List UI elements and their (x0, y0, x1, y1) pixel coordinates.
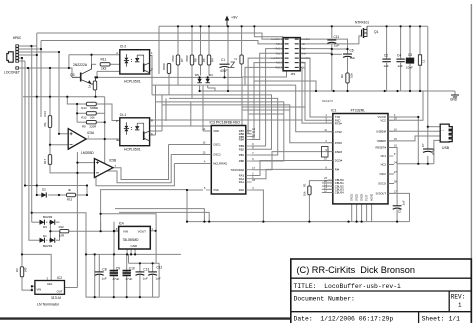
svg-text:NC1: NC1 (381, 154, 387, 158)
wire (168, 74, 170, 95)
svg-text:R9: R9 (82, 125, 86, 129)
svg-text:OSCI: OSCI (379, 172, 386, 176)
wire pin1 (19, 45, 37, 47)
svg-text:LocoNet 1: LocoNet 1 (271, 38, 282, 41)
wire lnB (41, 41, 283, 44)
svg-text:R5: R5 (202, 58, 206, 62)
op-amp IC5A LM393 (68, 129, 95, 155)
svg-text:D2: D2 (42, 188, 46, 192)
junction (24, 184, 26, 186)
header JP1 (271, 38, 310, 76)
wire (56, 231, 60, 240)
title block frame (291, 259, 472, 323)
svg-text:470R: 470R (185, 55, 189, 62)
svg-text:(C) RR-CirKits Dick Bronson: (C) RR-CirKits Dick Bronson (297, 265, 415, 275)
junction (208, 25, 210, 27)
junction (419, 90, 421, 92)
svg-text:R14: R14 (43, 111, 47, 117)
wire plus5 line (129, 263, 160, 297)
junction (58, 51, 60, 53)
svg-text:IC2: IC2 (57, 276, 62, 280)
svg-text:VCC: VCC (380, 119, 386, 123)
wire (409, 64, 411, 91)
svg-text:TITLE: LocoBuffer-usb-rev-i: TITLE: LocoBuffer-usb-rev-i (294, 283, 402, 290)
junction (76, 112, 78, 114)
svg-text:317LM: 317LM (51, 296, 61, 300)
svg-text:220R: 220R (90, 125, 97, 129)
svg-text:RxD 1: RxD 1 (276, 49, 283, 51)
wire 3v3 (388, 193, 410, 221)
resistor R13 (81, 102, 97, 110)
wire D3 node line (32, 213, 86, 297)
svg-text:MCLR/RA5: MCLR/RA5 (213, 162, 227, 166)
svg-text:LocoNet 2: LocoNet 2 (271, 57, 282, 60)
svg-text:FT232RL: FT232RL (351, 108, 366, 112)
junction (94, 96, 96, 98)
svg-text:GND1: GND1 (351, 193, 354, 201)
wire (95, 77, 97, 90)
capacitor C12 1uF (148, 266, 162, 281)
svg-text:OSC2: OSC2 (213, 153, 221, 157)
junction (76, 172, 78, 174)
wire ic1 gnd pin (351, 204, 353, 222)
wire (126, 254, 128, 272)
wire shield (19, 68, 72, 77)
junction (85, 253, 87, 255)
svg-text:10k: 10k (302, 191, 306, 196)
diode D7 zener (234, 55, 243, 64)
svg-text:R11: R11 (101, 57, 107, 61)
wire (208, 88, 215, 91)
junction (100, 213, 102, 215)
svg-text:1uF: 1uF (398, 64, 403, 68)
svg-text:47uF: 47uF (113, 277, 120, 281)
wire (199, 77, 201, 79)
svg-text:C8: C8 (102, 267, 106, 271)
junction (253, 25, 255, 27)
junction (104, 121, 106, 123)
wire (40, 194, 43, 196)
wire (165, 98, 167, 121)
svg-text:C2: C2 (384, 54, 388, 58)
resistor R12 10R (59, 225, 69, 238)
wire (200, 65, 202, 76)
wire (171, 154, 211, 156)
resistor R5 (199, 55, 206, 65)
wire (126, 275, 128, 297)
svg-text:Ct-1: Ct-1 (120, 113, 127, 117)
wire GND rail (200, 90, 455, 92)
svg-text:RTS#: RTS# (335, 121, 342, 125)
svg-text:USBDM: USBDM (376, 130, 386, 134)
wire emitter line (96, 76, 242, 78)
resistor R10 (88, 81, 97, 90)
wire vbus-pin (428, 126, 440, 128)
junction (315, 90, 317, 92)
connector USB (440, 124, 452, 150)
junction (203, 221, 205, 223)
wire (77, 121, 86, 123)
junction (30, 45, 32, 47)
wire (207, 85, 209, 88)
junction (361, 221, 363, 223)
svg-text:1k3: 1k3 (101, 67, 106, 71)
capacitor C9 47uF (110, 267, 121, 281)
wire (150, 119, 302, 121)
junction (21, 57, 23, 59)
junction (31, 289, 33, 291)
svg-text:.1uF: .1uF (402, 200, 406, 206)
svg-text:GND3: GND3 (361, 193, 364, 201)
svg-text:C13: C13 (143, 267, 149, 271)
op-amp IC5B LM393 (94, 159, 116, 178)
wire +9V rail (159, 25, 361, 27)
wire pin6 (19, 60, 25, 62)
junction (208, 221, 210, 223)
wire usbdp (388, 136, 440, 141)
junction (49, 67, 51, 69)
svg-text:DCD#: DCD# (335, 159, 343, 163)
wire (150, 134, 156, 136)
wire (224, 68, 226, 77)
wire (152, 263, 154, 272)
diode pair D3 BAV99 (40, 215, 55, 229)
wire bus-f (40, 41, 42, 118)
diode D2 (41, 188, 46, 198)
wire mesh fill (242, 109, 290, 111)
svg-text:R17: R17 (43, 158, 47, 164)
wire (388, 173, 394, 175)
wire (386, 63, 388, 91)
diode D5 LED (195, 73, 202, 83)
svg-text:6P6C: 6P6C (13, 36, 22, 40)
svg-text:TxD 1: TxD 1 (276, 44, 283, 46)
junction (113, 230, 115, 232)
svg-text:C5: C5 (397, 209, 401, 213)
wire (56, 221, 60, 223)
junction (346, 90, 348, 92)
wire (208, 26, 210, 55)
svg-text:RB4: RB4 (239, 138, 245, 142)
svg-text:Z: Z (234, 58, 238, 60)
junction (419, 25, 421, 27)
wire (77, 172, 94, 174)
svg-text:RB2: RB2 (239, 147, 245, 151)
wire vbus2 (427, 156, 429, 164)
wire bus-a2 (22, 277, 32, 290)
junction (427, 126, 429, 128)
svg-text:78L05SMD: 78L05SMD (123, 238, 140, 242)
wire usb gnd (434, 140, 440, 163)
junction (96, 76, 98, 78)
resistor R1 (302, 183, 311, 196)
resistor R2 (340, 73, 354, 83)
wire (191, 65, 193, 98)
wire (91, 55, 93, 65)
wire (95, 90, 97, 97)
wire (252, 49, 284, 146)
svg-text:3V3OUT: 3V3OUT (376, 192, 387, 196)
junction (113, 296, 115, 298)
svg-text:1uF: 1uF (384, 64, 389, 68)
svg-text:GND2: GND2 (356, 193, 359, 201)
resistor R4 (207, 55, 214, 65)
svg-text:D5: D5 (195, 73, 199, 77)
wire pin3 (19, 51, 59, 53)
wire ic1 gnd pin (366, 204, 368, 222)
wire (300, 63, 333, 121)
wire ic1 gnd pin (361, 204, 363, 222)
junction (126, 296, 128, 298)
wire rail drop left (158, 26, 160, 74)
junction (58, 133, 60, 135)
wire (332, 53, 342, 55)
wire (199, 85, 201, 91)
svg-text:R4: R4 (211, 58, 215, 62)
junction (396, 90, 398, 92)
svg-text:RB0: RB0 (239, 159, 245, 163)
svg-text:Date: 1/12/2006 06:17:29p: Date: 1/12/2006 06:17:29p (294, 315, 394, 322)
wire (77, 103, 86, 105)
wire (49, 145, 51, 155)
svg-text:HCPL0501: HCPL0501 (124, 148, 141, 152)
junction (139, 262, 141, 264)
wire shield-v (49, 68, 51, 97)
svg-text:GND: GND (131, 244, 139, 248)
svg-text:C4: C4 (397, 54, 401, 58)
svg-text:C9: C9 (116, 267, 120, 271)
junction (199, 25, 201, 27)
resistor R8 (185, 55, 198, 65)
wire (113, 275, 115, 297)
wire (252, 169, 333, 178)
wire (241, 64, 243, 77)
resistor R11 1k (100, 57, 110, 70)
svg-text:C7: C7 (421, 143, 425, 147)
wire (400, 63, 402, 91)
svg-text:10uF: 10uF (406, 66, 413, 70)
wire ct2 p1 (150, 56, 152, 71)
junction (331, 48, 333, 50)
junction (155, 230, 157, 232)
wire (300, 67, 333, 123)
junction (113, 230, 115, 232)
IC IC3 PIC16F88 (203, 121, 256, 194)
resistor R14 (43, 111, 52, 128)
wire vccio (388, 117, 418, 119)
resistor R6 (162, 63, 171, 73)
wire (32, 221, 40, 223)
wire pin5 (19, 57, 22, 59)
junction (40, 48, 42, 50)
junction (347, 221, 349, 223)
wire (68, 55, 70, 68)
junction (396, 221, 398, 223)
wire (177, 65, 179, 85)
svg-text:LOCONET: LOCONET (4, 71, 20, 75)
wire (46, 221, 48, 223)
wire loop4 (115, 209, 204, 222)
diode D4 LED (205, 73, 213, 83)
wire (76, 152, 78, 288)
svg-text:DSR#: DSR# (335, 150, 343, 154)
junction (86, 194, 88, 196)
wire (191, 26, 193, 55)
connector J1 LocoNet jack (4, 36, 22, 75)
junction (227, 90, 229, 92)
wire h96 (23, 96, 105, 98)
wire (322, 192, 333, 194)
wire (190, 102, 192, 126)
svg-text:1k: 1k (88, 84, 92, 88)
svg-text:D1: D1 (43, 234, 47, 238)
svg-text:VSS: VSS (213, 188, 219, 192)
svg-text:IC4: IC4 (119, 221, 124, 225)
wire bus-e (36, 55, 38, 195)
svg-text:DTR#: DTR# (335, 141, 343, 145)
svg-text:10k: 10k (350, 73, 354, 78)
junction (86, 184, 88, 186)
svg-text:USB: USB (442, 146, 450, 150)
wire (151, 71, 153, 95)
svg-text:R3: R3 (15, 268, 19, 272)
svg-text:T3CKI/RA6: T3CKI/RA6 (230, 168, 244, 172)
wire (152, 85, 333, 132)
svg-text:OUT: OUT (57, 290, 63, 294)
svg-text:CTS#: CTS# (335, 130, 342, 134)
wire ra0 down (252, 190, 264, 222)
junction (199, 76, 201, 78)
wire (48, 194, 66, 196)
IC IC2 LM317 terminator (35, 276, 65, 306)
wire d3 mid (49, 222, 51, 240)
junction (308, 221, 310, 223)
capacitor C7 4.7uF (421, 143, 435, 155)
svg-text:LocoNet: LocoNet (301, 38, 310, 41)
svg-text:C11: C11 (334, 35, 340, 39)
svg-text:RI#: RI# (335, 168, 340, 172)
svg-text:IC1: IC1 (331, 108, 337, 112)
wire (49, 97, 51, 116)
wire (388, 164, 394, 166)
wire (150, 107, 305, 126)
wire (139, 263, 141, 272)
svg-text:HCPL0501: HCPL0501 (124, 80, 141, 84)
wire vout (104, 97, 106, 139)
svg-text:C12: C12 (156, 266, 162, 270)
wire (203, 130, 211, 132)
wire (139, 275, 141, 297)
wire (300, 48, 332, 50)
wire (227, 26, 229, 64)
resistor R3 240R (15, 267, 27, 277)
resistor R12b (81, 112, 96, 120)
transistor Q3 2N2222A (70, 63, 96, 84)
wire (241, 26, 243, 54)
wire (400, 26, 402, 59)
wire ic1 gnd pin (356, 204, 358, 222)
svg-text:47uF: 47uF (126, 277, 133, 281)
page right border (470, 259, 472, 323)
transistor Q1 NTR4101 MOSFET (355, 21, 379, 39)
IC IC1 FT232RL (324, 108, 397, 204)
junction (27, 67, 29, 69)
wire q1 gate (300, 36, 361, 44)
wire bus-d (36, 33, 38, 55)
svg-text:10R: 10R (59, 234, 64, 238)
svg-text:L1: L1 (422, 59, 426, 63)
svg-text:Q1: Q1 (374, 30, 379, 34)
svg-text:RxD 2: RxD 2 (276, 68, 283, 70)
junction (49, 221, 51, 223)
junction (31, 212, 33, 214)
junction (49, 144, 51, 146)
junction (36, 184, 38, 186)
junction (100, 230, 102, 232)
wire ic4 in (114, 230, 119, 232)
svg-text:1uF: 1uF (156, 276, 161, 280)
junction (36, 54, 38, 56)
svg-text:650R: 650R (162, 63, 166, 70)
junction (417, 116, 419, 118)
junction (68, 67, 70, 69)
page bottom border (0, 317, 291, 319)
wire (126, 249, 128, 254)
wire r1 top (309, 181, 332, 186)
svg-text:TEST: TEST (366, 194, 369, 201)
wire (169, 98, 278, 155)
svg-text:47k: 47k (43, 122, 47, 127)
svg-text:RESET#: RESET# (322, 99, 333, 103)
wire usb bottom (397, 163, 434, 165)
optocoupler Ct-2 HCPL0501 (116, 45, 153, 84)
svg-text:M4BR: M4BR (90, 106, 98, 110)
svg-text:VDD: VDD (213, 129, 219, 133)
wire (177, 26, 179, 55)
wire (134, 249, 136, 254)
svg-text:R2: R2 (340, 74, 344, 78)
junction (76, 103, 78, 105)
wire loop1 (113, 145, 169, 180)
junction (94, 76, 96, 78)
svg-text:USBDP: USBDP (377, 139, 386, 143)
wire (130, 249, 132, 254)
wire ic2 stub (32, 285, 35, 287)
svg-text:1uF: 1uF (102, 276, 107, 280)
wire (332, 48, 348, 50)
wire r12r (69, 230, 119, 232)
inductor L1 (418, 55, 425, 65)
wire (454, 91, 456, 95)
IC IC4 78L05SMD regulator (116, 221, 154, 249)
wire (86, 186, 88, 196)
wire (96, 104, 120, 121)
svg-text:OSC1: OSC1 (213, 143, 221, 147)
wire (50, 164, 77, 173)
junction (36, 194, 38, 196)
wire (152, 275, 154, 297)
wire pin2 (19, 48, 41, 50)
resistor R9 (82, 121, 96, 129)
svg-text:C6: C6 (350, 49, 354, 53)
wire q3 top (69, 54, 120, 56)
svg-text:1uF: 1uF (143, 276, 148, 280)
junction (49, 96, 51, 98)
wire (113, 222, 115, 231)
wire ic2 tie (31, 286, 33, 290)
wire (97, 70, 120, 72)
junction (186, 221, 188, 223)
